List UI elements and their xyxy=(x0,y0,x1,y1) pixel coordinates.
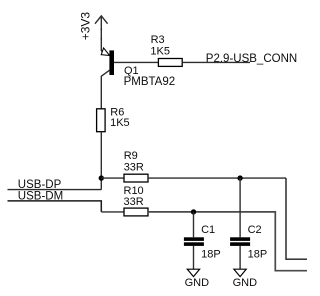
resistor R9 body xyxy=(124,174,148,182)
wire R10 to right and down xyxy=(148,212,307,271)
wire USB-DP from left xyxy=(8,189,102,191)
wire DP right corner down xyxy=(286,178,307,259)
svg-text:USB-DM: USB-DM xyxy=(18,191,63,203)
resistor R6 body xyxy=(97,109,106,132)
wire R6 down to DP node xyxy=(100,132,102,190)
svg-text:USB-DP: USB-DP xyxy=(18,179,62,191)
svg-text:C2: C2 xyxy=(248,224,262,236)
svg-text:1K5: 1K5 xyxy=(150,45,170,57)
resistor R3 body xyxy=(158,59,182,67)
svg-text:C1: C1 xyxy=(201,224,215,236)
svg-text:Q1: Q1 xyxy=(124,65,139,77)
capacitor C2 plate top xyxy=(230,237,250,241)
ground symbol C1 xyxy=(187,269,199,276)
wire base to R3 xyxy=(114,61,158,63)
junction node at collector/R9/USB-DP xyxy=(99,175,104,180)
wire C2 top xyxy=(239,178,241,237)
svg-text:+3V3: +3V3 xyxy=(79,12,93,41)
wire R9 to right xyxy=(148,177,286,179)
transistor Q1 base bar xyxy=(109,50,114,75)
wire R3 to net P2.9-USB_CONN xyxy=(182,61,250,63)
wire tick marks on +3V3 stem xyxy=(100,28,102,30)
svg-text:1K5: 1K5 xyxy=(110,117,130,129)
transistor Q1 emitter arrow (open, pointing to base bar) xyxy=(101,48,109,56)
svg-text:33R: 33R xyxy=(124,161,144,173)
junction node at C2 xyxy=(237,175,242,180)
resistor R10 body xyxy=(124,208,148,216)
svg-text:18P: 18P xyxy=(248,249,268,261)
power +3V3 arrow symbol xyxy=(95,16,108,51)
svg-text:33R: 33R xyxy=(124,196,144,208)
capacitor C1 plate top xyxy=(184,237,204,241)
ground symbol C2 xyxy=(234,269,246,276)
capacitor C1 plate bottom xyxy=(184,242,204,246)
wire node to R9 xyxy=(101,177,124,179)
svg-text:P2.9-USB_CONN: P2.9-USB_CONN xyxy=(206,53,297,65)
wire C1 top xyxy=(193,212,195,237)
wire C1 bottom xyxy=(193,246,195,269)
transistor Q1 emitter wire xyxy=(101,51,105,53)
svg-text:GND: GND xyxy=(185,277,210,289)
wire C2 bottom xyxy=(239,246,241,269)
svg-text:R9: R9 xyxy=(124,150,138,162)
junction node at C1 xyxy=(191,209,196,214)
capacitor C2 plate bottom xyxy=(230,242,250,246)
svg-text:18P: 18P xyxy=(201,249,221,261)
svg-text:PMBTA92: PMBTA92 xyxy=(124,76,176,88)
svg-text:GND: GND xyxy=(233,277,258,289)
svg-text:R3: R3 xyxy=(151,34,165,46)
wire DM to R10 xyxy=(101,211,124,213)
wire USB-DM from left xyxy=(8,201,102,212)
transistor Q1 collector wire xyxy=(101,70,109,109)
